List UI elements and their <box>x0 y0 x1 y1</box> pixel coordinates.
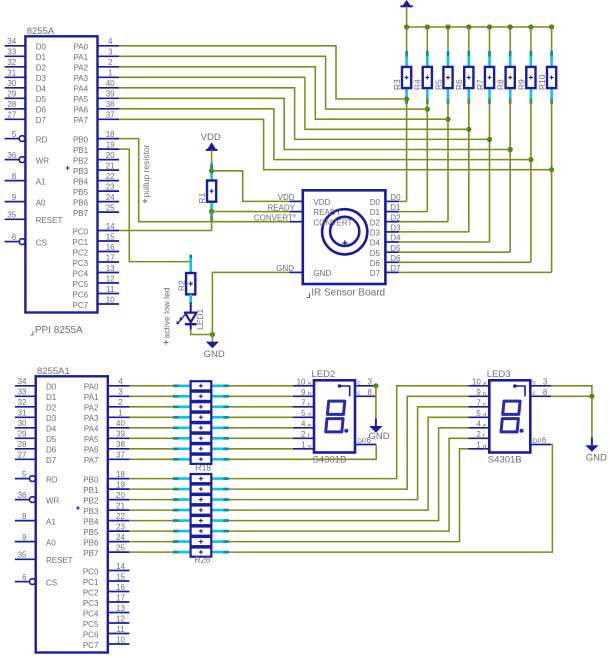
wire PA7 net: U1 pin to R10 junction to IR D7 <box>119 119 551 169</box>
wire R24 to LED3 segment f <box>229 438 468 531</box>
svg-text:39: 39 <box>106 90 115 99</box>
wire R20 to LED3 segment b <box>229 396 468 489</box>
LED3 pin 7 segment c <box>468 406 489 408</box>
8255A1 pin 36 WR <box>15 499 29 501</box>
8255A1 pin 35 RESET <box>15 558 36 560</box>
svg-text:2: 2 <box>301 430 306 439</box>
resistor R11 <box>173 384 191 387</box>
svg-text:D3: D3 <box>370 229 381 238</box>
svg-text:b: b <box>308 391 312 398</box>
LED2 seven-segment digit 8 <box>327 401 344 414</box>
wire R4 bottom to node D1 <box>426 98 428 212</box>
svg-text:11: 11 <box>116 625 125 634</box>
ground symbol (LED3) <box>591 438 593 446</box>
svg-text:active low led: active low led <box>161 287 171 338</box>
8255A pin 22 PB4 <box>98 180 120 182</box>
svg-text:D7: D7 <box>370 269 381 278</box>
8255A1 pin 20 PB2 <box>108 499 130 501</box>
svg-text:b: b <box>483 391 487 398</box>
svg-text:GND: GND <box>586 453 607 464</box>
resistor R20 <box>173 488 191 491</box>
8255A pin 33 D1 <box>5 55 26 57</box>
8255A1 pin 39 PA5 <box>108 437 130 439</box>
resistor R18 <box>173 458 191 461</box>
svg-text:PC0: PC0 <box>83 567 99 576</box>
IR sensor board lens circles <box>322 209 367 254</box>
8255A pin 16 PC2 <box>98 251 120 253</box>
svg-text:d: d <box>483 412 487 419</box>
8255A1 pin 29 D5 <box>15 437 36 439</box>
svg-text:D7: D7 <box>46 456 57 465</box>
LED3 seven-segment digit 8 <box>503 401 520 414</box>
8255A1 pin 34 D0 <box>15 385 36 387</box>
resistor R13 <box>173 405 191 408</box>
svg-text:D1: D1 <box>36 53 47 62</box>
resistor R7 leads <box>488 51 491 67</box>
svg-text:14: 14 <box>106 222 115 231</box>
svg-text:25: 25 <box>106 204 115 213</box>
LED2 pin 2 segment f <box>293 437 314 439</box>
resistor R1 leads <box>210 164 213 181</box>
svg-text:3: 3 <box>368 377 373 386</box>
LED3 pin 9 segment b <box>468 395 489 397</box>
svg-text:PC1: PC1 <box>83 578 99 587</box>
resistor R10 body <box>547 67 556 88</box>
svg-text:GND: GND <box>204 349 225 360</box>
LED2 pin 10 segment a <box>293 385 314 387</box>
svg-text:READY: READY <box>313 208 341 217</box>
svg-text:15: 15 <box>116 572 125 581</box>
8255A pin 21 PB3 <box>98 169 120 171</box>
svg-text:27: 27 <box>7 111 16 120</box>
svg-text:PC3: PC3 <box>73 259 89 268</box>
svg-text:20: 20 <box>106 151 115 160</box>
svg-text:19: 19 <box>116 481 125 490</box>
svg-text:21: 21 <box>116 502 125 511</box>
junction R4 / PA1 wire <box>425 107 430 112</box>
svg-text:9: 9 <box>476 388 481 397</box>
svg-text:2: 2 <box>476 430 481 439</box>
8255A1 pin 3 PA1 <box>108 395 130 397</box>
8255A pin 38 PA6 <box>98 108 120 110</box>
IR board pin D6 <box>385 261 399 263</box>
wire LED1 cathode to GND node <box>191 330 213 335</box>
svg-text:R9: R9 <box>516 79 526 90</box>
8255A pin 19 PB1 <box>98 148 120 150</box>
svg-text:PB2: PB2 <box>83 496 99 505</box>
svg-text:PC3: PC3 <box>83 599 99 608</box>
svg-text:PC6: PC6 <box>73 290 89 299</box>
svg-text:3: 3 <box>118 388 123 397</box>
8255A pin 36 WR <box>5 159 19 161</box>
svg-text:D5: D5 <box>36 95 47 104</box>
wire R16 to LED2 segment f <box>229 437 293 439</box>
svg-text:24: 24 <box>116 533 125 542</box>
wire R13 to LED2 segment c <box>229 406 293 408</box>
svg-text:D3: D3 <box>46 414 57 423</box>
wire VDD bus to R5 top <box>447 27 449 51</box>
LED2 pin 7 segment c <box>293 406 314 408</box>
svg-text:PA3: PA3 <box>84 414 99 423</box>
IR board pin D5 <box>385 251 399 253</box>
svg-text:PA7: PA7 <box>84 456 99 465</box>
8255A pin 2 PA2 <box>98 66 120 68</box>
svg-text:R6: R6 <box>454 79 464 90</box>
svg-text:PA7: PA7 <box>74 116 89 125</box>
svg-text:38: 38 <box>116 440 125 449</box>
svg-text:PB5: PB5 <box>83 528 99 537</box>
svg-text:30: 30 <box>7 79 16 88</box>
wire R7 bottom to node D4 <box>489 98 491 242</box>
svg-text:DP: DP <box>357 438 366 445</box>
LED3 pin 3 common cathode <box>530 385 551 387</box>
svg-text:D0: D0 <box>46 383 57 392</box>
svg-text:10: 10 <box>472 377 481 386</box>
8255A pin 1 PA3 <box>98 76 120 78</box>
wire IR GND pin to GND node <box>212 272 289 334</box>
wire R5 bottom to node D2 <box>447 98 449 222</box>
LED3 decimal point <box>520 429 524 433</box>
wire R17 to LED2 segment g <box>229 448 293 450</box>
wire R23 to LED3 segment e <box>229 428 468 521</box>
svg-text:PB1: PB1 <box>83 486 99 495</box>
8255A pin 29 D5 <box>5 97 26 99</box>
svg-text:32: 32 <box>7 58 16 67</box>
svg-text:PB7: PB7 <box>73 209 89 218</box>
svg-text:R2: R2 <box>176 280 186 291</box>
8255A1 pin 14 PC0 <box>108 570 130 572</box>
wire PB1 to R2 top <box>119 149 191 262</box>
8255A pin 5 RD <box>5 138 19 140</box>
wire PA5 net: U1 pin to R8 junction to IR D5 <box>119 98 510 149</box>
resistor R10 leads <box>550 51 553 67</box>
svg-text:D2: D2 <box>390 213 401 222</box>
8255A1 pin 19 PB1 <box>108 488 130 490</box>
chip 8255A1 (PPI 8255) body <box>36 376 108 652</box>
wire U2 PB1 to R20 <box>129 488 173 490</box>
wire VDD bus rail <box>407 26 552 28</box>
junction VDD bus / R4 <box>425 24 430 29</box>
8255A pin 24 PB6 <box>98 201 120 203</box>
wire U2 PB7 to R26 <box>129 551 173 553</box>
svg-text:35: 35 <box>7 211 16 220</box>
8255A1 pin 23 PB5 <box>108 530 130 532</box>
wire VDD bus to R4 top <box>426 27 428 51</box>
svg-text:R5: R5 <box>433 79 443 90</box>
8255A1 pin 38 PA6 <box>108 448 130 450</box>
LED2 pin 9 segment b <box>293 395 314 397</box>
8255A pin 30 D4 <box>5 87 26 89</box>
svg-text:RESET: RESET <box>36 216 63 225</box>
svg-text:PC5: PC5 <box>83 620 99 629</box>
svg-text:PB1: PB1 <box>73 146 89 155</box>
wire PA1 net: U1 pin to R4 junction to IR D1 <box>119 56 427 109</box>
resistor R9 leads <box>530 51 533 67</box>
svg-text:PA5: PA5 <box>74 95 89 104</box>
8255A pin 4 PA0 <box>98 45 120 47</box>
svg-text:DP: DP <box>533 438 542 445</box>
LED2 internal common marker <box>338 384 342 388</box>
wire VDD bus to R6 top <box>468 27 470 51</box>
resistor R21 <box>173 498 191 501</box>
svg-text:PA2: PA2 <box>84 404 99 413</box>
resistor R8 leads <box>509 51 512 67</box>
LED2 pin 8 common cathode <box>355 395 376 397</box>
svg-text:a: a <box>483 380 487 387</box>
svg-text:D4: D4 <box>370 239 381 248</box>
svg-text:WR: WR <box>46 496 60 505</box>
svg-text:PC4: PC4 <box>83 609 99 618</box>
junction LED1/IR GND/ground <box>210 332 215 337</box>
8255A pin 34 D0 <box>5 45 26 47</box>
wire U2 PB2 to R21 <box>129 499 173 501</box>
wire R18 to LED2 dp <box>229 445 376 460</box>
svg-text:23: 23 <box>116 523 125 532</box>
resistor R5 leads <box>447 51 450 67</box>
junction VDD bus / R7 <box>487 24 492 29</box>
svg-text:PA6: PA6 <box>84 446 99 455</box>
svg-text:CS: CS <box>36 238 47 247</box>
svg-text:22: 22 <box>116 512 125 521</box>
8255A pin 39 PA5 <box>98 97 120 99</box>
LED2 pin 1 segment g <box>293 448 314 450</box>
svg-text:21: 21 <box>106 162 115 171</box>
wire PA3 net: U1 pin to R6 junction to IR D3 <box>119 77 469 129</box>
svg-text:IR Sensor Board: IR Sensor Board <box>311 288 385 299</box>
svg-text:R7: R7 <box>475 79 485 90</box>
wire LED2 commons to ground <box>375 386 377 419</box>
display LED2 S4301B body <box>314 380 355 452</box>
resistor R8 body <box>506 67 515 88</box>
8255A1 pin 33 D1 <box>15 395 36 397</box>
svg-text:9: 9 <box>22 533 27 542</box>
svg-text:PB3: PB3 <box>73 167 89 176</box>
svg-text:PB4: PB4 <box>73 177 89 186</box>
svg-text:PA0: PA0 <box>84 383 99 392</box>
8255A1 pin 9 A0 <box>15 541 36 543</box>
svg-text:A1: A1 <box>46 517 56 526</box>
svg-text:f: f <box>483 433 485 440</box>
svg-text:6: 6 <box>542 436 547 445</box>
svg-text:LED2: LED2 <box>312 369 336 380</box>
svg-text:3: 3 <box>108 48 113 57</box>
svg-text:PC1: PC1 <box>73 238 89 247</box>
svg-text:PB2: PB2 <box>73 156 89 165</box>
svg-text:13: 13 <box>116 604 125 613</box>
wire R14 to LED2 segment d <box>229 416 293 418</box>
svg-text:12: 12 <box>116 614 125 623</box>
LED LED1 (active low) <box>190 303 192 313</box>
LED2 pin 3 common cathode <box>355 385 376 387</box>
display LED3 S4301B body <box>489 380 530 452</box>
8255A pin 6 CS <box>5 241 19 243</box>
svg-text:PA1: PA1 <box>84 393 99 402</box>
svg-text:e: e <box>483 422 487 429</box>
svg-text:PPI 8255A: PPI 8255A <box>35 325 83 336</box>
svg-text:23: 23 <box>106 183 115 192</box>
wire R15 to LED2 segment e <box>229 427 293 429</box>
junction LED2 pin3/pin8 <box>373 383 378 388</box>
svg-text:18: 18 <box>106 130 115 139</box>
LED2 pin 4 segment e <box>293 427 314 429</box>
svg-text:11: 11 <box>106 285 115 294</box>
8255A1 pin 40 PA4 <box>108 427 130 429</box>
junction VDD bus / R6 <box>466 24 471 29</box>
wire VDD bus to R8 top <box>509 27 511 51</box>
8255A1 pin 5 RD <box>15 478 29 480</box>
svg-text:PC0: PC0 <box>73 227 89 236</box>
IR board pin D3 <box>385 231 399 233</box>
svg-text:29: 29 <box>7 90 16 99</box>
svg-text:8: 8 <box>543 388 548 397</box>
svg-text:CONVERT*: CONVERT* <box>313 218 355 227</box>
wire R1 top to IR VDD pin <box>212 171 290 202</box>
LED3 pin 10 segment a <box>468 385 489 387</box>
svg-text:9: 9 <box>301 388 306 397</box>
svg-text:PB6: PB6 <box>83 538 99 547</box>
8255A1 pin 18 PB0 <box>108 478 130 480</box>
svg-text:PA1: PA1 <box>74 53 89 62</box>
svg-text:39: 39 <box>116 430 125 439</box>
svg-text:37: 37 <box>106 111 115 120</box>
8255A pin 11 PC6 <box>98 293 120 295</box>
wire VDD bus to R9 top <box>530 27 532 51</box>
wire R3 bottom to node D0 <box>406 98 408 201</box>
LED3 pin 2 segment f <box>468 437 489 439</box>
svg-text:6: 6 <box>22 573 27 582</box>
wire R11 to LED2 segment a <box>229 385 293 387</box>
resistor R9 body <box>526 67 535 88</box>
svg-text:40: 40 <box>116 419 125 428</box>
8255A pin 27 D7 <box>5 118 26 120</box>
svg-text:8: 8 <box>368 388 373 397</box>
junction VDD bus / R10 <box>549 24 554 29</box>
8255A pin 28 D6 <box>5 108 26 110</box>
svg-text:LED1: LED1 <box>195 308 205 330</box>
8255A pin 15 PC1 <box>98 240 120 242</box>
svg-text:2: 2 <box>108 58 113 67</box>
LED2 pin 6 decimal point dp <box>355 444 376 446</box>
8255A1 pin 11 PC6 <box>108 633 130 635</box>
svg-text:D0: D0 <box>36 43 47 52</box>
8255A1 pin 6 CS <box>15 581 29 583</box>
svg-text:16: 16 <box>106 243 115 252</box>
wire LED3 pin8 to common node <box>551 395 592 397</box>
svg-text:36: 36 <box>18 491 27 500</box>
8255A1 pin 4 PA0 <box>108 385 130 387</box>
svg-text:PB7: PB7 <box>83 549 99 558</box>
svg-text:5: 5 <box>301 409 306 418</box>
svg-text:5: 5 <box>476 409 481 418</box>
resistor R23 <box>173 519 191 522</box>
resistor R4 body <box>423 67 432 88</box>
wire R9 bottom to node D6 <box>530 98 532 262</box>
svg-text:R3: R3 <box>392 79 402 90</box>
svg-text:A1: A1 <box>36 177 46 186</box>
svg-text:PA4: PA4 <box>74 85 89 94</box>
svg-text:4: 4 <box>476 419 481 428</box>
wire PA6 net: U1 pin to R9 junction to IR D6 <box>119 109 531 160</box>
ground symbol (LED1) <box>211 335 213 342</box>
junction VDD bus / R3 <box>404 24 409 29</box>
wire U2 PA4 to R15 <box>129 427 173 429</box>
wire R26 to LED3 dp <box>229 445 553 553</box>
svg-text:PC7: PC7 <box>73 301 89 310</box>
svg-text:5: 5 <box>22 470 27 479</box>
svg-text:1: 1 <box>301 440 306 449</box>
wire VDD bus to R3 top <box>406 27 408 51</box>
junction VDD bus / R9 <box>528 24 533 29</box>
IR board pin CONVERT* <box>289 221 303 223</box>
junction R5 / PA2 wire <box>445 117 450 122</box>
svg-text:D6: D6 <box>46 446 57 455</box>
svg-text:RD: RD <box>46 475 58 484</box>
wire U2 PA1 to R12 <box>129 395 173 397</box>
svg-text:e: e <box>308 422 312 429</box>
resistor R7 body <box>485 67 494 88</box>
svg-text:33: 33 <box>7 48 16 57</box>
chip 8255A (PPI 8255) body <box>25 36 97 312</box>
wire PA2 net: U1 pin to R5 junction to IR D2 <box>119 67 448 119</box>
IR board pin D7 <box>385 271 399 273</box>
8255A pin 23 PB5 <box>98 190 120 192</box>
svg-text:1: 1 <box>118 409 123 418</box>
svg-text:13: 13 <box>106 264 115 273</box>
8255A pin 8 A1 <box>5 180 26 182</box>
svg-text:PC7: PC7 <box>83 641 99 650</box>
svg-text:PB0: PB0 <box>73 135 89 144</box>
8255A1 pin 30 D4 <box>15 427 36 429</box>
resistor R6 body <box>464 67 473 88</box>
wire READY: R1 bottom to IR READY pin <box>212 211 290 213</box>
ground symbol (LED2) <box>375 419 377 426</box>
wire VDD to R1 <box>211 150 213 164</box>
svg-text:VDD: VDD <box>201 132 221 143</box>
svg-text:PC5: PC5 <box>73 280 89 289</box>
svg-text:D2: D2 <box>370 218 381 227</box>
svg-text:PA4: PA4 <box>84 425 99 434</box>
IR board pin D1 <box>385 211 399 213</box>
svg-text:PB4: PB4 <box>83 517 99 526</box>
8255A pin 20 PB2 <box>98 159 120 161</box>
junction R1 top / VDD wire <box>209 168 214 173</box>
svg-text:PA5: PA5 <box>84 435 99 444</box>
junction R10 / PA7 wire <box>549 167 554 172</box>
svg-text:PC6: PC6 <box>83 630 99 639</box>
8255A1 pin 13 PC4 <box>108 612 130 614</box>
wire CONVERT*: U1 PB0 to IR CONVERT* pin <box>119 139 289 222</box>
svg-text:D4: D4 <box>390 234 401 243</box>
svg-text:D5: D5 <box>390 244 401 253</box>
svg-text:D4: D4 <box>36 85 47 94</box>
svg-text:PC4: PC4 <box>73 269 89 278</box>
svg-text:32: 32 <box>18 398 27 407</box>
IR board pin READY <box>289 211 303 213</box>
svg-text:19: 19 <box>106 141 115 150</box>
8255A1 pin 24 PB6 <box>108 541 130 543</box>
wire R22 to LED3 segment d <box>229 417 468 510</box>
svg-text:8: 8 <box>12 172 17 181</box>
svg-text:PA2: PA2 <box>74 64 89 73</box>
resistor R1 body <box>207 181 216 202</box>
junction R8 / PA5 wire <box>508 147 513 152</box>
junction R3 / PA0 wire <box>404 96 409 101</box>
wire LED3 pin3 to common node <box>551 386 592 397</box>
8255A pin 17 PC3 <box>98 261 120 263</box>
8255A1 pin 28 D6 <box>15 448 36 450</box>
8255A pin 13 PC4 <box>98 272 120 274</box>
svg-text:24: 24 <box>106 193 115 202</box>
